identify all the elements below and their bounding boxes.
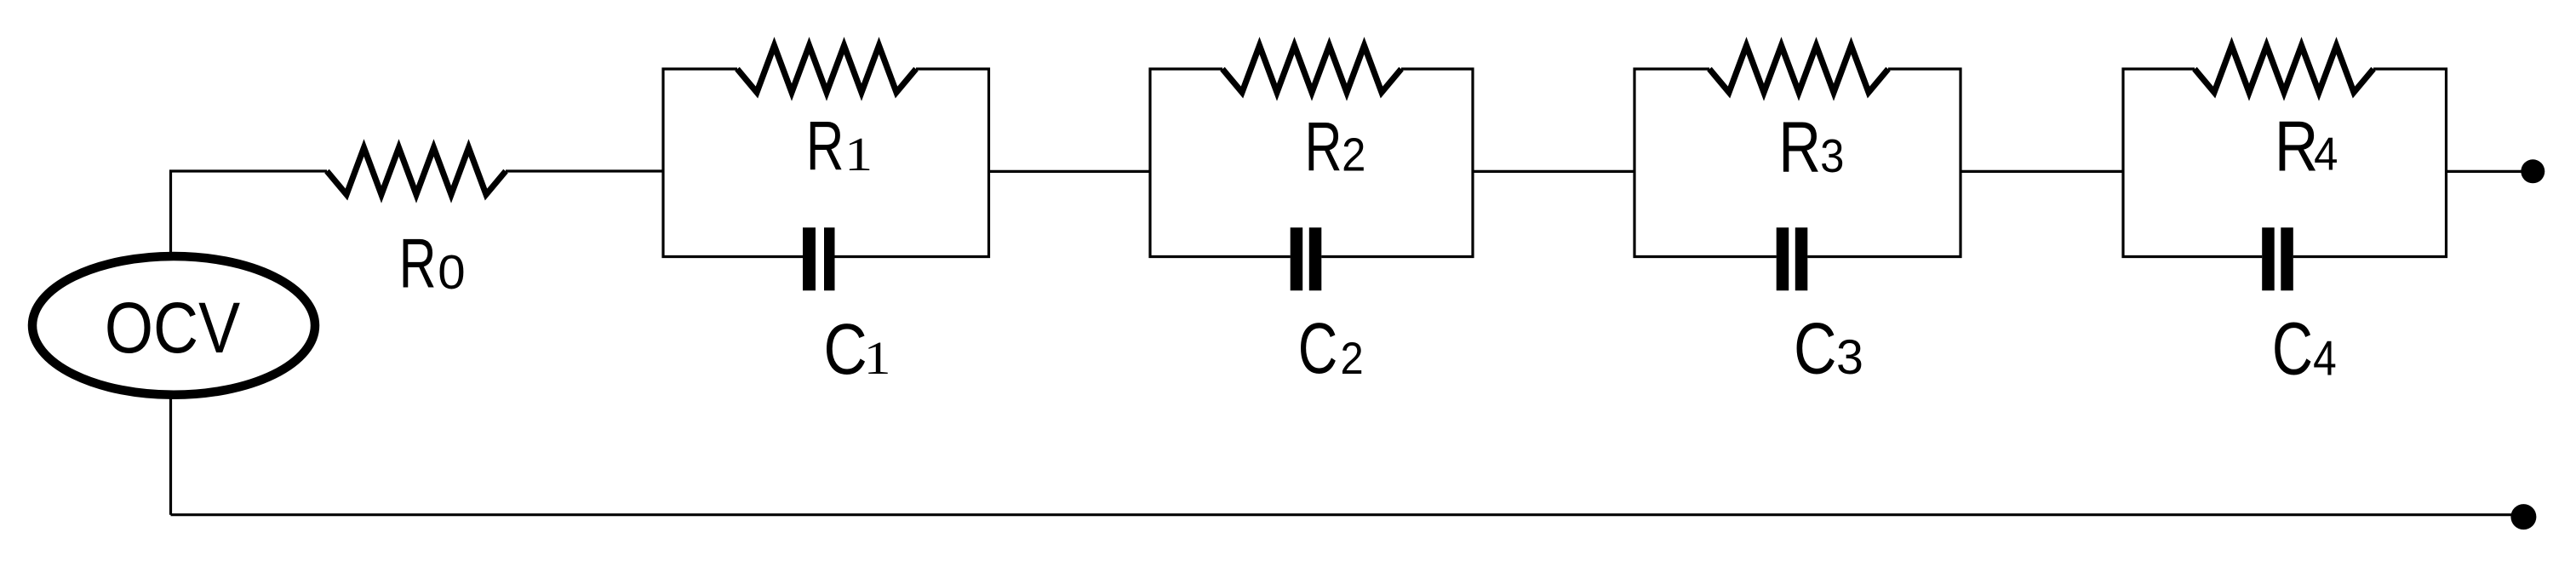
label C1 <box>823 308 890 389</box>
RC box 4 wiring rectangle <box>2123 69 2447 257</box>
svg-text:C: C <box>1298 308 1338 389</box>
positive terminal node dot <box>2521 159 2545 183</box>
svg-text:C: C <box>823 308 867 389</box>
wire from box 1 to box 2 <box>989 170 1151 173</box>
svg-text:3: 3 <box>1820 130 1844 182</box>
wire from box 3 to box 4 <box>1961 170 2123 173</box>
resistor R3 (zigzag on top edge of box 3) <box>1709 46 1888 93</box>
label R4 <box>2275 108 2338 186</box>
negative terminal node dot <box>2510 504 2536 530</box>
label R3 <box>1778 107 1844 187</box>
label OCV <box>105 287 240 368</box>
RC box 3 wiring rectangle <box>1634 69 1961 257</box>
voltage source OCV (ellipse body) <box>32 256 315 395</box>
capacitor C1 (two plates on bottom edge of box 1) <box>803 227 835 290</box>
svg-text:1: 1 <box>864 332 891 384</box>
label R1 <box>806 107 873 185</box>
capacitor C3 (two plates on bottom edge of box 3) <box>1777 227 1808 290</box>
bottom return rail wire <box>171 513 2524 516</box>
label C3 <box>1794 307 1863 389</box>
resistor R4 (zigzag on top edge of box 4) <box>2195 46 2373 93</box>
capacitor C2 (two plates on bottom edge of box 2) <box>1291 227 1322 290</box>
svg-text:R: R <box>2275 108 2319 186</box>
svg-text:R: R <box>1304 109 1342 186</box>
wire from box 2 to box 3 <box>1473 170 1634 173</box>
svg-text:0: 0 <box>438 246 465 300</box>
RC box 2 wiring rectangle <box>1150 69 1473 257</box>
resistor R1 (zigzag on top edge of box 1) <box>737 46 916 93</box>
RC box 1 wiring rectangle <box>663 69 989 257</box>
svg-text:1: 1 <box>844 129 873 181</box>
label C2 <box>1298 308 1364 389</box>
svg-text:C: C <box>2272 308 2313 391</box>
capacitor C4 (two plates on bottom edge of box 4) <box>2262 227 2293 290</box>
wire from OCV bottom terminal down to bottom-left corner <box>169 398 172 515</box>
svg-text:4: 4 <box>2314 129 2338 180</box>
label C4 <box>2272 308 2337 391</box>
label R0 <box>399 226 466 303</box>
wire from OCV top terminal up to top-left corner and right to R0 <box>171 171 328 253</box>
svg-text:R: R <box>1778 107 1821 187</box>
svg-text:2: 2 <box>1342 129 1365 181</box>
svg-text:R: R <box>806 107 844 185</box>
svg-text:C: C <box>1794 307 1837 389</box>
resistor R2 (zigzag on top edge of box 2) <box>1222 46 1401 93</box>
resistor R0 (series zigzag) <box>327 148 506 195</box>
svg-text:OCV: OCV <box>105 287 240 368</box>
wire from R0 to RC box 1 <box>506 169 663 172</box>
svg-text:3: 3 <box>1836 330 1863 385</box>
label R2 <box>1304 109 1365 186</box>
svg-text:4: 4 <box>2313 331 2337 386</box>
svg-text:R: R <box>399 226 437 303</box>
svg-text:2: 2 <box>1341 333 1364 383</box>
wire from box 4 to positive terminal <box>2447 170 2524 173</box>
